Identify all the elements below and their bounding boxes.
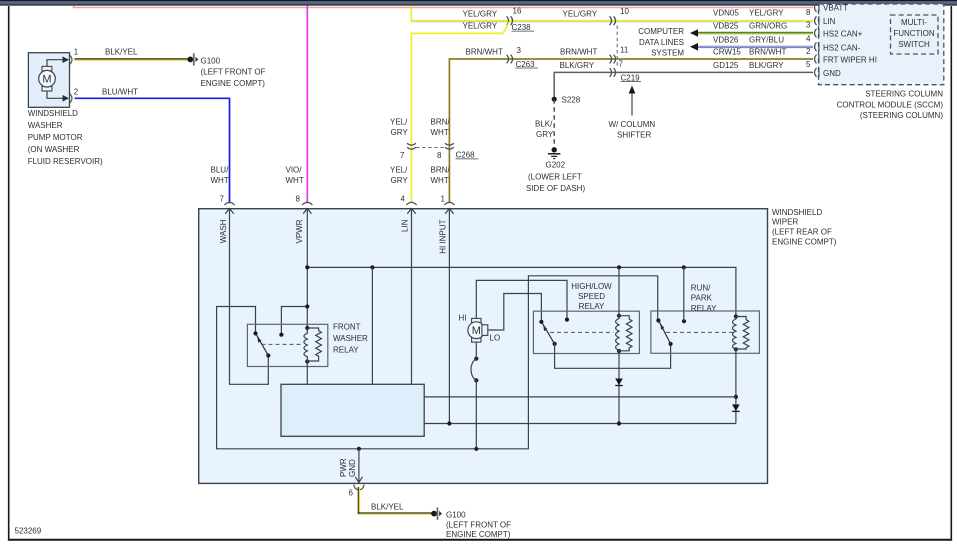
PWR GND internal wire — [339, 449, 363, 483]
svg-text:(LEFT FRONT OF: (LEFT FRONT OF — [446, 520, 511, 529]
svg-text:CRW15: CRW15 — [713, 48, 741, 57]
svg-text:4: 4 — [806, 35, 811, 44]
pin 8 VPWR entry — [295, 202, 312, 243]
svg-text:WHT: WHT — [431, 128, 449, 137]
high/low relay coil — [616, 314, 632, 354]
svg-text:FRONT: FRONT — [333, 323, 361, 332]
svg-text:7: 7 — [619, 59, 624, 68]
svg-text:CONTROL MODULE (SCCM): CONTROL MODULE (SCCM) — [837, 100, 944, 109]
wire PNK VBATT — [74, 6, 814, 8]
svg-text:WASH: WASH — [219, 219, 228, 243]
pin 1 HI INPUT entry — [438, 202, 454, 253]
windshield wiper module box — [199, 208, 837, 484]
svg-text:VDN05: VDN05 — [713, 9, 739, 18]
computer data lines system label — [638, 27, 684, 58]
svg-text:HS2 CAN-: HS2 CAN- — [823, 43, 861, 52]
svg-text:C263: C263 — [516, 60, 536, 69]
svg-text:SYSTEM: SYSTEM — [651, 49, 684, 58]
page header bar — [0, 0, 957, 6]
washer relay coil — [304, 326, 322, 364]
svg-text:SWITCH: SWITCH — [898, 40, 930, 49]
SCCM pin connector arcs — [815, 3, 819, 77]
wire BLK/YEL to G100 (bottom) — [358, 487, 431, 514]
svg-text:YEL/: YEL/ — [390, 118, 408, 127]
svg-text:WINDSHIELD: WINDSHIELD — [28, 109, 78, 118]
svg-text:STEERING COLUMN: STEERING COLUMN — [865, 90, 943, 99]
label BRN/WHT below C268 — [431, 166, 451, 204]
svg-text:2: 2 — [74, 88, 79, 97]
svg-text:VBATT: VBATT — [823, 4, 848, 13]
svg-text:ENGINE COMPT): ENGINE COMPT) — [201, 79, 266, 88]
pin 4 LIN entry — [400, 202, 416, 232]
svg-text:5: 5 — [806, 60, 811, 69]
run/park relay switch — [656, 318, 736, 346]
svg-text:4: 4 — [401, 195, 406, 204]
LIN internal wire down to module — [411, 209, 413, 385]
svg-text:S228: S228 — [562, 96, 581, 105]
svg-text:YEL/: YEL/ — [390, 166, 408, 175]
svg-text:(ON WASHER: (ON WASHER — [28, 145, 80, 154]
node: HI INPUT junction — [447, 421, 451, 425]
svg-text:VPWR: VPWR — [295, 219, 304, 243]
logic module output lower — [424, 423, 736, 425]
svg-text:1: 1 — [74, 48, 79, 57]
VPWR feed bus — [307, 267, 736, 316]
label BRN/WHT above C268 — [431, 118, 451, 138]
washer relay contact B feed from VPWR — [281, 307, 307, 335]
svg-text:BLK/GRY: BLK/GRY — [749, 61, 784, 70]
svg-text:SIDE OF DASH): SIDE OF DASH) — [526, 184, 585, 193]
bus to high/low coil — [618, 267, 620, 315]
svg-text:FUNCTION: FUNCTION — [893, 29, 935, 38]
svg-text:SHIFTER: SHIFTER — [617, 131, 651, 140]
svg-text:BRN/WHT: BRN/WHT — [749, 48, 786, 57]
svg-text:BRN/WHT: BRN/WHT — [560, 47, 597, 56]
svg-text:GRY: GRY — [391, 128, 409, 137]
svg-text:WHT: WHT — [211, 176, 229, 185]
svg-text:GRY: GRY — [391, 176, 409, 185]
svg-text:M: M — [42, 74, 51, 86]
svg-text:(LEFT REAR OF: (LEFT REAR OF — [772, 228, 832, 237]
wire GRY/BLU HS2 CAN- — [698, 46, 814, 47]
connector C263 pin 3 — [507, 46, 538, 69]
run/park relay box — [651, 283, 760, 353]
svg-text:HI: HI — [459, 314, 467, 323]
svg-text:G100: G100 — [201, 56, 221, 65]
pin 7 WASH entry — [219, 202, 235, 243]
svg-text:GND: GND — [823, 69, 841, 78]
svg-text:VDB26: VDB26 — [713, 35, 739, 44]
bus tap down to logic module — [371, 267, 373, 384]
connector C219 pin 10 — [610, 7, 630, 25]
svg-text:GND: GND — [348, 459, 357, 477]
connector C219 pin 11 — [610, 45, 629, 63]
node: motor return tap — [474, 447, 478, 451]
svg-text:BLK/YEL: BLK/YEL — [371, 503, 404, 512]
svg-text:BLK/YEL: BLK/YEL — [105, 47, 138, 56]
connector C238 pin 16 — [507, 7, 534, 32]
svg-text:G100: G100 — [446, 510, 466, 519]
wiper motor M — [459, 314, 501, 343]
bus to run/park contact — [683, 267, 685, 321]
svg-text:BLU/WHT: BLU/WHT — [102, 87, 138, 96]
label BLU/WHT vertical — [211, 166, 230, 204]
wire BLK/GRY to G202 (dashed) — [553, 99, 555, 147]
svg-text:BLU/: BLU/ — [211, 166, 230, 175]
svg-text:6: 6 — [349, 489, 354, 498]
windshield washer pump motor box — [28, 53, 103, 166]
diode (high/low) — [615, 379, 623, 386]
ground G100 (top) — [187, 53, 265, 88]
svg-text:BLK/GRY: BLK/GRY — [560, 61, 595, 70]
svg-text:WHT: WHT — [286, 176, 304, 185]
svg-text:BRN/: BRN/ — [431, 118, 451, 127]
svg-text:8: 8 — [437, 151, 442, 160]
wire YEL/GRY from C238 down to LIN pin 4 — [412, 22, 510, 204]
svg-text:RELAY: RELAY — [691, 304, 717, 313]
svg-text:16: 16 — [513, 7, 522, 16]
node: diode junction — [617, 421, 621, 425]
wire BLK/YEL to G100 — [75, 47, 189, 60]
VPWR internal wire down to relay coil — [306, 209, 308, 329]
svg-text:WINDSHIELD: WINDSHIELD — [772, 208, 822, 217]
svg-text:SPEED: SPEED — [578, 292, 605, 301]
high/low relay switch — [539, 318, 613, 347]
SCCM: steering column control module box — [819, 4, 944, 85]
wire BLU/WHT to WASH pin 7 — [75, 87, 230, 203]
svg-text:G202: G202 — [546, 161, 566, 170]
svg-text:WIPER: WIPER — [772, 218, 798, 227]
connector C219 dashed face line — [616, 26, 618, 69]
connector C268 — [400, 143, 478, 160]
svg-text:GD125: GD125 — [713, 61, 739, 70]
SCCM caption — [837, 90, 944, 121]
svg-text:PUMP MOTOR: PUMP MOTOR — [28, 133, 83, 142]
svg-text:1: 1 — [441, 195, 446, 204]
logic module output upper — [424, 396, 736, 398]
high/low speed relay box — [533, 282, 639, 354]
svg-text:BRN/: BRN/ — [431, 166, 451, 175]
label YEL/GRY above C268 — [390, 118, 408, 138]
washer relay switch — [253, 331, 303, 357]
svg-text:YEL/GRY: YEL/GRY — [463, 22, 498, 31]
page left border — [8, 6, 10, 541]
wire BRN/WHT FRT WIPER HI horizontal run — [449, 59, 813, 203]
connector C219 pin 7 — [610, 59, 641, 82]
svg-text:ENGINE COMPT): ENGINE COMPT) — [446, 530, 511, 539]
svg-text:WASHER: WASHER — [333, 334, 368, 343]
svg-text:WHT: WHT — [431, 176, 449, 185]
svg-text:M: M — [472, 325, 481, 337]
wire GRN/ORG HS2 CAN+ — [698, 33, 814, 34]
arrow to computer data lines (CAN-) — [690, 43, 698, 51]
svg-text:HS2 CAN+: HS2 CAN+ — [823, 30, 863, 39]
svg-text:LO: LO — [490, 334, 501, 343]
splice S228 — [552, 96, 581, 105]
svg-text:GRY: GRY — [536, 130, 554, 139]
washer pump motor symbol — [39, 66, 56, 91]
svg-text:2: 2 — [806, 47, 811, 56]
motor HI wire to high/low relay contact — [476, 280, 567, 319]
svg-text:GRN/ORG: GRN/ORG — [749, 22, 787, 31]
svg-text:3: 3 — [517, 46, 522, 55]
svg-text:VIO/: VIO/ — [286, 166, 303, 175]
svg-text:8: 8 — [296, 195, 301, 204]
svg-text:YEL/GRY: YEL/GRY — [463, 9, 498, 18]
svg-text:DATA LINES: DATA LINES — [639, 38, 684, 47]
svg-text:(LEFT FRONT OF: (LEFT FRONT OF — [201, 68, 266, 77]
svg-text:LIN: LIN — [400, 219, 409, 232]
svg-text:RUN/: RUN/ — [691, 283, 711, 292]
svg-text:3: 3 — [806, 21, 811, 30]
node: pwr gnd tap — [357, 447, 361, 451]
motor LO wire to high/low relay common — [488, 294, 542, 331]
svg-text:YEL/GRY: YEL/GRY — [563, 9, 598, 18]
svg-text:(LOWER LEFT: (LOWER LEFT — [528, 173, 582, 182]
svg-text:7: 7 — [220, 195, 225, 204]
ground G100 (bottom) — [431, 507, 511, 539]
svg-text:10: 10 — [620, 7, 629, 16]
label BLK/GRY vertical run — [535, 120, 554, 140]
svg-text:C238: C238 — [512, 23, 532, 32]
high/low coil down through diode — [618, 351, 620, 424]
w/ column shifter arrow — [609, 86, 656, 140]
svg-text:BLK/: BLK/ — [535, 120, 553, 129]
svg-text:RELAY: RELAY — [579, 302, 605, 311]
svg-text:(STEERING COLUMN): (STEERING COLUMN) — [860, 111, 943, 120]
pin 6 exit — [349, 485, 365, 498]
multi-function switch box — [891, 15, 939, 54]
page right border — [950, 6, 952, 541]
svg-text:11: 11 — [620, 45, 629, 54]
svg-text:523269: 523269 — [15, 527, 42, 536]
page bottom border — [8, 539, 952, 541]
motor return loop — [471, 342, 478, 449]
svg-text:PWR: PWR — [339, 458, 348, 477]
svg-text:FLUID RESERVOIR): FLUID RESERVOIR) — [28, 157, 103, 166]
svg-text:MULTI-: MULTI- — [901, 18, 927, 27]
HI INPUT internal wire down — [448, 209, 450, 424]
washer motor pin 1 wiring — [47, 48, 79, 67]
ground G202 — [526, 147, 585, 193]
node: bus taps — [305, 265, 309, 269]
svg-text:W/ COLUMN: W/ COLUMN — [609, 120, 656, 129]
front washer relay box — [247, 323, 368, 367]
svg-text:BRN/WHT: BRN/WHT — [466, 47, 503, 56]
svg-text:C268: C268 — [456, 151, 476, 160]
logic module rectangle — [281, 384, 424, 436]
washer motor pin 2 wiring — [47, 88, 79, 104]
svg-text:LIN: LIN — [823, 17, 836, 26]
svg-text:GRY/BLU: GRY/BLU — [749, 35, 784, 44]
wire BLK/GRY GND horizontal — [554, 72, 813, 99]
SCCM wire labels — [713, 8, 811, 70]
svg-text:8: 8 — [806, 8, 811, 17]
svg-text:HI INPUT: HI INPUT — [438, 219, 447, 253]
WASH internal wire to washer relay contact — [230, 209, 269, 385]
wiper speed outputs link — [555, 344, 671, 368]
svg-text:YEL/GRY: YEL/GRY — [749, 9, 784, 18]
washer relay coil to logic module — [306, 362, 308, 385]
diode (run/park) — [732, 404, 740, 411]
wire VIO/WHT VPWR vertical — [286, 6, 308, 204]
svg-text:VDB25: VDB25 — [713, 22, 739, 31]
run/park relay coil — [733, 314, 749, 351]
svg-text:FRT WIPER HI: FRT WIPER HI — [823, 56, 877, 65]
svg-text:HIGH/LOW: HIGH/LOW — [571, 282, 612, 291]
arrow to computer data lines (CAN+) — [690, 29, 698, 37]
ground / park return path — [217, 276, 658, 449]
svg-text:COMPUTER: COMPUTER — [638, 27, 684, 36]
svg-text:7: 7 — [400, 151, 405, 160]
svg-text:RELAY: RELAY — [333, 346, 359, 355]
wire YEL/GRY LIN horizontal run — [411, 6, 813, 22]
run/park coil down through diode — [735, 349, 737, 423]
svg-text:WASHER: WASHER — [28, 121, 63, 130]
svg-text:ENGINE COMPT): ENGINE COMPT) — [772, 238, 837, 247]
svg-text:PARK: PARK — [691, 294, 713, 303]
svg-text:C219: C219 — [621, 73, 641, 82]
label YEL/GRY below C268 — [390, 166, 408, 204]
